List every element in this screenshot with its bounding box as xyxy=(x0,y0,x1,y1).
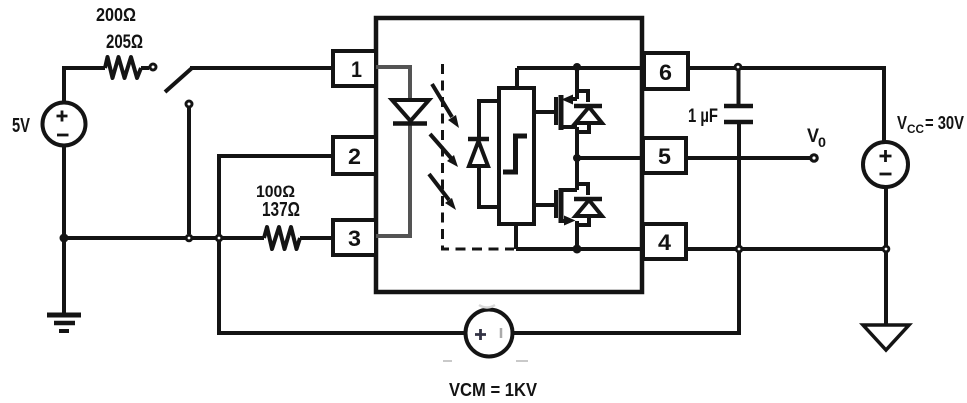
capacitor C1 1uF xyxy=(724,70,753,122)
svg-text:137Ω: 137Ω xyxy=(262,199,300,221)
pin 6 xyxy=(644,53,688,89)
ground GND2 xyxy=(863,325,909,350)
node capacitor branch crossing xyxy=(735,245,744,254)
wire internal LED path (gray) xyxy=(376,67,410,236)
node mid rail junction xyxy=(573,154,581,162)
svg-text:CC: CC xyxy=(907,122,924,136)
node junction 5V/rail xyxy=(60,234,69,243)
voltage source VCM xyxy=(466,310,513,357)
wire switch terminal B down xyxy=(187,108,191,234)
wire switch to pin 1 xyxy=(190,66,333,70)
wire Vcc to ground xyxy=(884,187,888,325)
wire pin 6 to Vcc xyxy=(688,68,884,143)
wire VCM to capacitor branch xyxy=(513,124,739,333)
light arrow 2 xyxy=(430,134,458,167)
transistor Q2 xyxy=(556,158,577,249)
ground GND1 xyxy=(47,238,81,331)
svg-text:4: 4 xyxy=(658,230,672,255)
wire resistor R2 to pin 3 xyxy=(300,236,333,240)
svg-text:6: 6 xyxy=(659,60,672,85)
wire internal top rail xyxy=(517,66,646,70)
label Vo xyxy=(807,126,826,150)
IC U1 outline xyxy=(376,18,642,292)
svg-text:2: 2 xyxy=(348,144,361,169)
svg-text:V: V xyxy=(897,113,907,133)
svg-text:5: 5 xyxy=(658,144,671,169)
resistor R2 100/137 ohm xyxy=(264,227,300,249)
pin 4 xyxy=(643,224,686,259)
ghost mark below IC xyxy=(479,305,495,308)
transistor Q1 xyxy=(556,68,577,158)
wire driver bottom stub xyxy=(514,224,518,249)
pin 5 xyxy=(643,138,686,173)
isolation barrier dashed xyxy=(443,64,515,249)
node on ground rail xyxy=(185,234,194,243)
wire 5V top to resistor xyxy=(64,68,105,103)
svg-text:0: 0 xyxy=(818,134,826,150)
wire pin 2 to bottom rail xyxy=(219,156,465,333)
resistor R1 200/205 ohm xyxy=(105,57,141,78)
svg-text:1: 1 xyxy=(351,57,362,82)
light arrow 3 xyxy=(429,174,456,210)
wire gate 2 xyxy=(534,203,556,207)
label Vcc = 30V xyxy=(897,113,964,136)
wire rail 5V to resistor R2 xyxy=(64,236,264,240)
node Vcc branch crossing xyxy=(882,245,891,254)
node Vo terminal xyxy=(809,153,819,163)
svg-text:3: 3 xyxy=(348,226,361,251)
node switch terminal A xyxy=(150,64,156,70)
photodiode D2 xyxy=(468,101,499,207)
light arrow 1 xyxy=(432,84,459,128)
body diode D3 xyxy=(574,91,602,132)
svg-text:5V: 5V xyxy=(12,115,30,137)
pin 1 xyxy=(333,51,376,86)
wire pin 4 rail xyxy=(686,247,884,251)
wire driver top to internal top rail xyxy=(515,68,519,88)
node crossing on rail xyxy=(215,234,224,243)
node switch terminal B xyxy=(186,101,192,107)
svg-text:1 µF: 1 µF xyxy=(688,106,718,127)
switch SW1 blade xyxy=(165,68,192,92)
pin 2 xyxy=(333,137,376,174)
svg-text:205Ω: 205Ω xyxy=(106,32,143,53)
LED D1 xyxy=(392,100,429,124)
voltage source 5V xyxy=(43,103,86,146)
node top rail junction xyxy=(573,63,581,71)
svg-text:200Ω: 200Ω xyxy=(96,5,136,25)
driver U2 (schmitt) xyxy=(499,88,534,224)
svg-text:VCM = 1KV: VCM = 1KV xyxy=(449,380,537,400)
wire internal mid rail xyxy=(577,156,645,160)
body diode D4 xyxy=(574,184,602,225)
node capacitor top xyxy=(734,63,743,72)
svg-text:= 30V: = 30V xyxy=(925,113,964,133)
wire pin 5 to Vo xyxy=(686,156,810,160)
wire gate 1 xyxy=(534,110,556,114)
ghost mark below VCM xyxy=(443,360,528,362)
node bottom rail junction xyxy=(573,245,582,254)
wire resistor to switch terminal xyxy=(141,66,149,70)
pin 3 xyxy=(333,220,376,255)
wire internal bottom rail xyxy=(516,247,645,251)
wire 5V bottom to rail xyxy=(62,145,66,238)
voltage source Vcc xyxy=(863,142,908,187)
